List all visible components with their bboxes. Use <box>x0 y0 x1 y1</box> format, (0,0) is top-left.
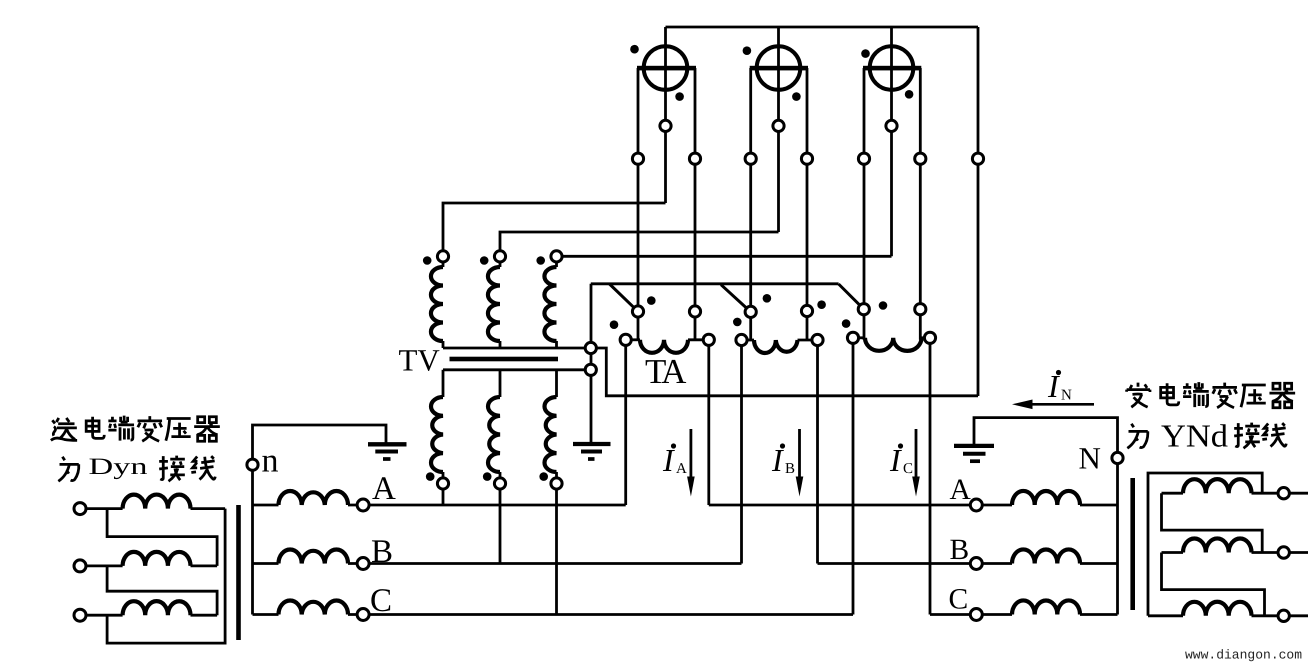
wire top bus <box>666 26 979 29</box>
wire TA3 S1 to C bus <box>852 343 855 614</box>
terminal W2 right <box>801 153 812 164</box>
TV primary winding c <box>555 262 558 267</box>
wire n trunk <box>251 470 254 614</box>
CT TA1 secondary winding <box>626 338 640 341</box>
terminal TA3 P1 <box>858 304 869 315</box>
terminal W2 center <box>773 120 784 131</box>
wire C bus right <box>930 613 1012 616</box>
label right title line1 <box>1127 383 1150 408</box>
terminal W3 left <box>858 153 869 164</box>
label left title line2 <box>58 457 78 482</box>
polarity dot TV secondary c <box>539 472 548 481</box>
svg-text:C: C <box>903 461 913 477</box>
polarity dot TV primary c <box>536 256 545 265</box>
winding right-wye C <box>1012 600 1080 614</box>
left delta winding C <box>86 614 123 617</box>
wire C bus to N trunk <box>1080 613 1118 616</box>
svg-text:B: B <box>950 534 970 566</box>
wire B bus to N trunk <box>1080 562 1118 565</box>
terminal TA1 S1 <box>620 334 631 345</box>
svg-text:YNd: YNd <box>1161 418 1228 454</box>
wire delta link a-b <box>1162 493 1263 552</box>
left delta winding A <box>86 507 123 510</box>
svg-text:B: B <box>371 534 393 570</box>
label left title line1 <box>51 418 77 440</box>
arrow I_A <box>690 429 693 478</box>
polarity dot TA2 S <box>733 318 742 327</box>
polarity dot W1 bottom <box>675 92 684 101</box>
wire delta link b-c <box>1162 553 1265 616</box>
wire delta link B-C <box>107 566 217 615</box>
wattmeter element W3 <box>870 46 914 90</box>
polarity dot TA2 P <box>763 294 772 303</box>
wire right drop to TA rail <box>977 27 980 396</box>
wire meter W1 current lead right <box>694 68 697 340</box>
terminal TV primary b <box>494 251 505 262</box>
terminal left delta B <box>74 560 86 572</box>
left delta winding B <box>86 565 123 568</box>
polarity dot TV secondary a <box>426 472 435 481</box>
polarity dot TA3 P <box>879 301 888 310</box>
wire TA3 S2 to C bus <box>929 343 932 614</box>
wire meter W1 current lead left <box>637 68 640 340</box>
wattmeter element W2 <box>757 46 801 90</box>
ground left wye <box>368 444 407 459</box>
terminal TV primary a <box>437 251 448 262</box>
wire W1 to TV-a <box>443 203 666 251</box>
right delta winding b <box>1162 551 1184 554</box>
terminal TA1 P1 <box>632 306 643 317</box>
terminal TA1 P2 <box>689 306 700 317</box>
polarity dot W2 top <box>743 46 752 55</box>
wire A bus left <box>348 504 626 507</box>
wire W3 to TV-c <box>562 255 891 258</box>
svg-text:TV: TV <box>399 343 441 378</box>
svg-text:A: A <box>950 474 972 506</box>
wire C bus <box>253 613 279 616</box>
arrow I_C <box>915 429 918 478</box>
polarity dot TA1 S <box>610 320 619 329</box>
terminal TA1 S2 <box>703 334 714 345</box>
terminal n <box>247 459 258 470</box>
svg-text:TA: TA <box>645 352 687 391</box>
svg-text:n: n <box>262 443 279 480</box>
svg-text:Dyn: Dyn <box>89 454 148 480</box>
wire TA1 primary diagonal <box>610 284 639 312</box>
CT TA3 secondary winding <box>853 336 865 339</box>
wire TA primary top line <box>591 282 839 285</box>
terminal TA2 S1 <box>736 334 747 345</box>
arrow I_N <box>1031 403 1094 406</box>
wire W2 to TV-b <box>500 232 779 251</box>
wire TA2 S1 to B bus <box>740 346 743 564</box>
wire TA1 S2 to A bus <box>707 345 710 505</box>
polarity dot W2 bottom <box>792 92 801 101</box>
svg-text:C: C <box>949 584 969 616</box>
winding left-wye C <box>279 601 349 615</box>
TV primary winding b <box>499 262 502 267</box>
wire delta link top <box>1148 473 1262 616</box>
right delta winding c <box>1148 614 1183 617</box>
wire B bus left <box>348 562 742 565</box>
terminal W2 left <box>745 153 756 164</box>
svg-text:C: C <box>370 583 392 619</box>
wire TV sec a to phase A bus <box>442 489 445 505</box>
ground TV secondary <box>573 444 611 459</box>
terminal N <box>1112 452 1123 463</box>
polarity dot TV primary a <box>423 256 432 265</box>
winding right-wye A <box>1012 491 1080 505</box>
wire A bus right <box>709 504 1012 507</box>
terminal TA3 P2 <box>915 304 926 315</box>
wire TA3 primary diagonal <box>839 284 864 309</box>
wire TV sec c to phase C bus <box>555 489 558 615</box>
polarity dot W3 bottom <box>905 90 914 99</box>
wire TV sec b to phase B bus <box>499 489 502 564</box>
TV secondary winding a <box>442 370 445 397</box>
svg-text:A: A <box>372 471 396 507</box>
terminal B left <box>357 558 369 570</box>
terminal right delta b <box>1278 547 1289 558</box>
terminal B right <box>970 558 982 570</box>
svg-text:B: B <box>785 461 795 477</box>
CT TA2 secondary winding <box>742 339 755 342</box>
winding left-wye B <box>279 550 349 564</box>
right transformer core <box>1130 478 1135 610</box>
terminal C right <box>970 609 982 621</box>
polarity dot TA2 P2 <box>817 300 826 309</box>
wattmeter element W1 <box>644 46 688 90</box>
terminal TA3 S1 <box>847 332 858 343</box>
terminal W1 left <box>632 153 643 164</box>
wire stub delta b <box>1289 551 1308 554</box>
wire TV primary common bus <box>443 347 586 350</box>
wire TV secondary common bus <box>443 368 586 371</box>
terminal left delta A <box>74 503 86 515</box>
polarity dot W3 top <box>861 49 870 58</box>
TV secondary winding c <box>555 370 558 397</box>
polarity dot TV primary b <box>480 256 489 265</box>
polarity dot TA1 P <box>647 296 656 305</box>
ground right <box>954 446 994 461</box>
terminal right wire <box>972 153 983 164</box>
wire TA frame rail <box>596 348 978 396</box>
wire meter W3 voltage lead <box>890 27 893 256</box>
wire meter W2 current lead left <box>749 68 752 340</box>
TV primary winding a <box>442 262 445 267</box>
wire delta link C-A <box>107 509 225 643</box>
wire TA corner to TV ground <box>590 284 593 444</box>
terminal W3 center <box>886 120 897 131</box>
wire meter W2 voltage lead <box>777 27 780 232</box>
wire A bus <box>253 504 279 507</box>
terminal A left <box>357 499 369 511</box>
terminal TA2 P2 <box>801 305 812 316</box>
svg-text:N: N <box>1079 441 1101 476</box>
terminal right delta c <box>1278 610 1289 621</box>
winding left-wye A <box>279 491 349 505</box>
wire delta link A-B <box>107 509 217 566</box>
terminal TV bus bottom <box>585 364 596 375</box>
wire B bus right <box>818 562 1013 565</box>
terminal left delta C <box>74 609 86 621</box>
terminal TV secondary a <box>437 478 448 489</box>
wire meter W3 current lead right <box>919 68 922 340</box>
terminal TV bus top <box>585 342 596 353</box>
terminal C left <box>357 609 369 621</box>
wire meter W2 current lead right <box>806 68 809 340</box>
wire meter W1 voltage lead <box>664 27 667 203</box>
arrow I_B <box>798 429 801 478</box>
svg-text:A: A <box>676 461 687 477</box>
terminal A right <box>970 499 982 511</box>
terminal W3 right <box>915 153 926 164</box>
polarity dot TA3 S <box>842 319 851 328</box>
terminal TV primary c <box>551 251 562 262</box>
terminal W1 center <box>660 120 671 131</box>
wire C bus left <box>348 613 853 616</box>
terminal TA2 P1 <box>745 306 756 317</box>
terminal TV secondary b <box>494 478 505 489</box>
terminal W1 right <box>689 153 700 164</box>
right delta winding a <box>1162 492 1184 495</box>
wire A bus to N trunk <box>1080 504 1118 507</box>
left transformer core <box>236 505 241 640</box>
polarity dot TV secondary b <box>483 472 492 481</box>
wire B bus <box>253 562 279 565</box>
label right title line2 <box>1127 424 1147 449</box>
terminal TA3 S2 <box>924 332 935 343</box>
terminal TV secondary c <box>551 478 562 489</box>
wire stub delta c <box>1289 614 1308 617</box>
svg-text:www.diangon.com: www.diangon.com <box>1185 648 1302 663</box>
wire TA2 S2 to B bus <box>816 346 819 564</box>
wire meter W3 current lead left <box>863 68 866 340</box>
wire TA1 S1 to A bus <box>624 345 627 505</box>
terminal TA2 S2 <box>812 334 823 345</box>
wire TA2 primary diagonal <box>721 285 751 312</box>
polarity dot W1 top <box>630 45 639 54</box>
wire n to ground <box>253 425 387 459</box>
TV core bar <box>450 357 559 362</box>
terminal right delta a <box>1278 488 1289 499</box>
svg-text:N: N <box>1061 388 1072 404</box>
wire N trunk <box>1116 464 1119 615</box>
TV secondary winding b <box>499 370 502 397</box>
winding right-wye B <box>1012 549 1080 563</box>
wire N to ground <box>974 418 1118 453</box>
wire stub delta a <box>1289 492 1308 495</box>
